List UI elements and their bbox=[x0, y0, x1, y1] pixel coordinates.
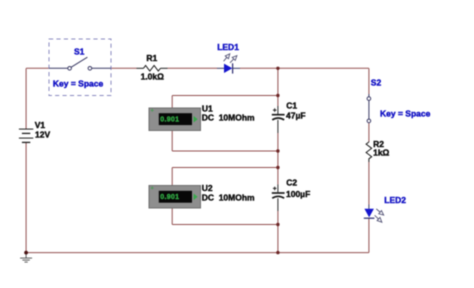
svg-text:DC 10MOhm: DC 10MOhm bbox=[202, 192, 255, 202]
battery V1 bbox=[19, 129, 33, 142]
svg-text:0.901: 0.901 bbox=[160, 116, 179, 123]
svg-text:S2: S2 bbox=[371, 77, 382, 87]
wire S2 to R2 bbox=[368, 123, 370, 142]
wire U2 top vertical drop bbox=[171, 168, 173, 186]
wire mid vertical top (node to C1) bbox=[277, 68, 279, 106]
svg-text:1.0kΩ: 1.0kΩ bbox=[141, 71, 165, 81]
wire U2 bottom vertical bbox=[171, 209, 173, 225]
wire U1 bottom vertical bbox=[171, 131, 173, 152]
svg-text:47µF: 47µF bbox=[286, 110, 306, 120]
svg-text:1kΩ: 1kΩ bbox=[373, 147, 389, 157]
wire S1-box to R1 bbox=[111, 67, 137, 69]
svg-text:100µF: 100µF bbox=[286, 189, 310, 199]
wire mid vertical C1 to C2 bbox=[277, 133, 279, 185]
switch S1 bbox=[49, 39, 111, 96]
resistor R2 bbox=[366, 142, 372, 163]
svg-text:C2: C2 bbox=[286, 178, 297, 188]
wire R1 to LED1 bbox=[168, 67, 218, 69]
voltmeter U2 bbox=[149, 186, 201, 209]
wire U2 bottom horizontal bbox=[172, 224, 278, 226]
wire U1 top vertical drop bbox=[171, 96, 173, 109]
wire top-left horizontal bbox=[26, 67, 49, 69]
capacitor C2 bbox=[272, 185, 285, 212]
node U1 top junction bbox=[276, 94, 279, 97]
svg-text:R1: R1 bbox=[146, 53, 157, 63]
wire U1 bottom horizontal bbox=[172, 150, 278, 152]
ground bbox=[20, 253, 32, 263]
wire R2 to LED2 bbox=[368, 162, 370, 205]
node U2 bottom junction bbox=[276, 223, 279, 226]
node ground junction bbox=[24, 251, 28, 255]
node U1 bottom junction bbox=[276, 149, 279, 152]
svg-text:Key = Space: Key = Space bbox=[380, 109, 431, 119]
svg-text:DC 10MOhm: DC 10MOhm bbox=[202, 113, 255, 123]
svg-text:LED1: LED1 bbox=[217, 42, 239, 52]
LED D2 bbox=[364, 205, 384, 223]
svg-text:Key = Space: Key = Space bbox=[53, 79, 104, 89]
node bottom of mid branch bbox=[276, 251, 279, 254]
node top of mid branch bbox=[276, 67, 279, 70]
wire left vertical upper (corner to battery) bbox=[25, 68, 27, 129]
wire U1 top horizontal bbox=[172, 95, 278, 97]
wire left vertical lower (battery to bottom) bbox=[25, 142, 27, 252]
wire LED2 to bottom-right corner bbox=[368, 218, 370, 252]
svg-text:S1: S1 bbox=[74, 46, 85, 56]
wire U2 top horizontal bbox=[172, 167, 278, 169]
wire LED1 to top-right corner bbox=[240, 67, 369, 69]
wire bottom horizontal bbox=[26, 252, 369, 254]
capacitor C1 bbox=[272, 106, 285, 133]
node U2 top junction bbox=[276, 166, 279, 169]
resistor R1 bbox=[137, 66, 168, 72]
voltmeter U1 bbox=[149, 108, 201, 131]
svg-text:C1: C1 bbox=[286, 101, 297, 111]
wire right vertical (corner to S2) bbox=[368, 68, 370, 94]
wire mid vertical C2 to bottom bbox=[277, 211, 279, 253]
switch S2 bbox=[367, 94, 371, 123]
svg-text:12V: 12V bbox=[35, 129, 50, 139]
svg-text:0.901: 0.901 bbox=[160, 194, 179, 201]
svg-text:LED2: LED2 bbox=[384, 195, 406, 205]
LED D1 bbox=[217, 54, 240, 74]
